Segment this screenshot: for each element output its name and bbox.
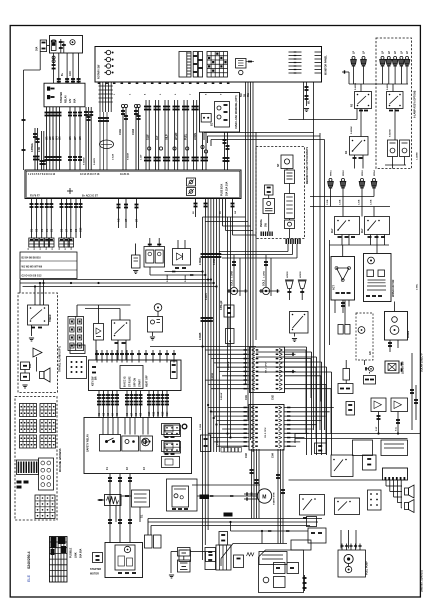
- relay column circle: [183, 425, 187, 429]
- solenoid relay box B2: [365, 217, 390, 235]
- svg-text:HEAT OFF: HEAT OFF: [146, 375, 149, 387]
- svg-text:LP: LP: [406, 51, 409, 54]
- lamp assy lower drops: [354, 155, 356, 169]
- svg-text:60A: 60A: [74, 98, 77, 103]
- svg-text:LP: LP: [394, 51, 397, 54]
- machine harness connector dashed box: [15, 397, 57, 521]
- key switch contact table: [120, 366, 143, 389]
- towing ground: [29, 337, 34, 339]
- comparator relay A: [371, 398, 386, 412]
- wires below gauge cluster: [389, 340, 391, 352]
- dark connector pair A: [200, 495, 210, 500]
- solenoid feed labels: [233, 255, 235, 287]
- connector pair CN12: [134, 104, 137, 107]
- svg-text:0.85GR: 0.85GR: [128, 152, 130, 160]
- ignition switch circle: [70, 40, 75, 45]
- amp unit box: [285, 170, 295, 184]
- svg-text:K13: K13: [162, 411, 165, 416]
- wires into lower block left: [208, 407, 249, 409]
- svg-text:1 2 3 4 5 6 7 8 9 10 11 12: 1 2 3 4 5 6 7 8 9 10 11 12: [28, 173, 56, 176]
- lamp unit box bottom: [337, 547, 339, 549]
- svg-text:2.0LW: 2.0LW: [113, 154, 115, 160]
- right bus verticals from panel: [303, 82, 305, 120]
- wires from upper block right: [285, 349, 307, 351]
- controller connector block lower: [249, 405, 284, 451]
- svg-text:1.25RB: 1.25RB: [232, 270, 234, 278]
- svg-text:K11: K11: [153, 411, 156, 416]
- svg-text:2.0WL: 2.0WL: [417, 283, 419, 290]
- panel hour meter: [236, 59, 247, 69]
- svg-text:B2 B4 B6 B8 B10: B2 B4 B6 B8 B10: [22, 257, 42, 260]
- upper small box: [70, 345, 85, 354]
- svg-text:1.25B: 1.25B: [340, 199, 342, 205]
- alarm op-amp: [33, 348, 42, 357]
- bottom bus lines: [148, 518, 322, 520]
- svg-text:0.85RG: 0.85RG: [355, 82, 357, 90]
- wires battery box down to ECU: [53, 53, 55, 83]
- fusible link F1: [40, 40, 46, 52]
- battery B1 box: [50, 36, 83, 54]
- head lamp relay RL2: [387, 92, 404, 109]
- ground resistor: [133, 270, 138, 272]
- svg-text:WIPER MOTOR: WIPER MOTOR: [392, 279, 395, 297]
- lamp L7: [406, 56, 409, 59]
- svg-text:0.85LW: 0.85LW: [221, 393, 223, 400]
- svg-text:CN1: CN1: [245, 395, 248, 400]
- svg-text:50A 80A: 50A 80A: [80, 548, 83, 558]
- work lamp wire chain: [306, 82, 308, 106]
- svg-text:CN4: CN4: [272, 453, 275, 458]
- battery cell cylinder: [51, 41, 56, 51]
- safety wires into subboxes: [102, 418, 104, 435]
- aircon small parts: [338, 325, 343, 335]
- wide pin connector: [17, 460, 39, 475]
- terminal name table: [20, 252, 77, 279]
- instrument panel assembly box: [95, 47, 322, 83]
- battery main: [178, 548, 191, 557]
- panel bottom pin ticks: [98, 83, 101, 84]
- wire left feed: [23, 70, 25, 170]
- svg-text:K14: K14: [166, 411, 169, 416]
- left horizontal feeders: [20, 279, 211, 281]
- overload sensor sub-box: [215, 102, 230, 128]
- wires below headers down to bottom: [251, 449, 253, 519]
- motor feed ticks: [246, 492, 247, 495]
- svg-text:HORN: HORN: [300, 271, 302, 278]
- svg-text:DRW NO. S240-E01: DRW NO. S240-E01: [421, 569, 424, 592]
- svg-text:0.85GW: 0.85GW: [390, 129, 392, 137]
- pedal chain wires: [268, 195, 270, 199]
- wires above key box: [96, 350, 98, 363]
- memory 2-way option dashed box: [256, 147, 305, 239]
- comparator relay B: [391, 398, 408, 412]
- pedal sensor box A: [265, 185, 274, 195]
- memory relay: [285, 220, 295, 229]
- svg-text:LEVER SW: LEVER SW: [402, 361, 405, 374]
- svg-text:PRS3: PRS3: [362, 170, 364, 176]
- main relay unit U1 box: [44, 83, 85, 107]
- washer ground: [292, 338, 297, 340]
- memory controller tall box: [285, 194, 295, 219]
- right vertical wires: [411, 353, 413, 430]
- relay feed wires: [149, 238, 151, 247]
- key switch left ticks: [92, 366, 96, 368]
- svg-text:FUEL: FUEL: [185, 133, 188, 140]
- pin box bottom: [179, 550, 191, 562]
- svg-text:0.85RW: 0.85RW: [351, 126, 353, 134]
- glow plug resistor box: [132, 490, 150, 507]
- glow coil inductor: [107, 497, 119, 505]
- feeder junction dots: [34, 285, 36, 287]
- overload output rings: [202, 132, 204, 170]
- wire battery to fuse: [47, 45, 50, 47]
- svg-text:B ACC IG: B ACC IG: [124, 376, 127, 387]
- wire drops mid: [118, 199, 120, 229]
- panel connector pin stubs: [289, 51, 302, 53]
- wires from lower block right: [284, 407, 334, 409]
- svg-text:0.85YB: 0.85YB: [94, 158, 96, 165]
- svg-text:ELE: ELE: [27, 574, 31, 582]
- horn H1: [286, 281, 293, 289]
- center long link: [150, 346, 256, 348]
- svg-text:ROTARY SW: ROTARY SW: [98, 64, 101, 79]
- svg-text:0.85B: 0.85B: [213, 258, 216, 265]
- diode unit: [94, 324, 104, 341]
- svg-text:HORN: HORN: [407, 331, 410, 338]
- svg-text:30A: 30A: [36, 46, 39, 51]
- relay box upper right: [385, 361, 399, 373]
- towing feeds: [34, 287, 36, 306]
- coil zigzag: [247, 553, 255, 557]
- svg-text:CN2: CN2: [272, 395, 275, 400]
- lower relay box B: [381, 440, 408, 456]
- svg-text:GLW: GLW: [147, 134, 150, 140]
- dark connector pair B: [224, 513, 233, 517]
- fuel unit box: [148, 317, 163, 333]
- lamp L6: [400, 56, 403, 59]
- svg-text:BZ: BZ: [211, 122, 214, 126]
- horn relay oval: [100, 140, 114, 149]
- svg-text:19 20 21: 19 20 21: [120, 173, 130, 176]
- solenoid SOL2: [262, 287, 269, 294]
- speaker unit box: [281, 155, 293, 169]
- svg-text:0.5L: 0.5L: [396, 426, 398, 431]
- svg-text:6-LAMP ASSY (OPTION): 6-LAMP ASSY (OPTION): [414, 90, 417, 118]
- svg-text:ST: ST: [136, 218, 139, 222]
- key switch right part: [171, 361, 178, 379]
- fuel pump wires up: [340, 530, 342, 549]
- alarm buzzer speaker: [40, 372, 45, 379]
- heater relay cluster box: [167, 479, 198, 511]
- svg-text:OILP: OILP: [166, 134, 169, 140]
- svg-text:K12: K12: [157, 411, 160, 416]
- svg-text:C10: C10: [80, 227, 83, 232]
- svg-text:SAFETY RELAY: SAFETY RELAY: [87, 434, 90, 452]
- svg-text:LP: LP: [363, 51, 366, 54]
- svg-text:PRS4: PRS4: [373, 170, 376, 176]
- flasher wires: [392, 157, 394, 166]
- relay box RB1: [331, 455, 353, 477]
- center relay: [335, 498, 360, 515]
- svg-text:LP: LP: [382, 51, 385, 54]
- svg-text:SOL2: SOL2: [263, 279, 266, 286]
- relay box RB2: [363, 455, 377, 470]
- connector dot box: [67, 357, 87, 379]
- svg-text:STARTER: STARTER: [90, 568, 101, 571]
- svg-text:LP: LP: [388, 51, 391, 54]
- resistor pack: [226, 329, 235, 344]
- wiper relay pair box: [144, 247, 165, 268]
- panel output wire field: [85, 107, 87, 170]
- lamp L3: [381, 56, 384, 59]
- svg-text:HT: HT: [125, 218, 128, 222]
- relay cluster box bottom right: [259, 550, 304, 593]
- svg-text:CN3: CN3: [245, 453, 248, 458]
- feeder staircase to right: [256, 346, 307, 348]
- connector pair CN11: [121, 104, 124, 107]
- pedal connector comb B: [286, 239, 287, 245]
- relay column box 2: [162, 441, 180, 452]
- svg-text:TRAVEL ALARM (OPT): TRAVEL ALARM (OPT): [59, 346, 62, 372]
- indicator lamps in panel: [106, 50, 110, 54]
- floor relay box: [259, 552, 287, 565]
- ring terminal block: [39, 458, 54, 490]
- svg-text:0.85LgR: 0.85LgR: [220, 300, 223, 310]
- relay drop wires: [360, 84, 362, 92]
- svg-text:G2 G4 G6 G8 G12: G2 G4 G6 G8 G12: [22, 275, 43, 278]
- svg-text:PRS2: PRS2: [343, 170, 345, 176]
- svg-text:LP: LP: [400, 51, 403, 54]
- svg-text:1.25B: 1.25B: [359, 199, 361, 205]
- alternator fuse bank hatched: [50, 537, 68, 583]
- junction bus box: [25, 170, 241, 199]
- relay output drops: [341, 235, 343, 246]
- svg-text:0.85RL: 0.85RL: [387, 82, 389, 90]
- speaker wires: [385, 480, 387, 486]
- panel fuse grid block: [207, 52, 228, 78]
- svg-text:PEDAL: PEDAL: [260, 218, 263, 227]
- wiper motor box: [364, 254, 392, 302]
- fuse small: [219, 532, 228, 546]
- cross links to right bus: [204, 132, 314, 134]
- battery plus mark: [69, 188, 71, 194]
- svg-text:FUSE BOX: FUSE BOX: [221, 183, 224, 196]
- svg-text:0.5Y: 0.5Y: [376, 426, 378, 431]
- speaker SP1: [405, 488, 409, 495]
- right spine verticals: [329, 240, 331, 345]
- bundle continues to bus: [99, 112, 101, 170]
- lamp feed wires: [353, 66, 355, 84]
- svg-text:CN-1 CPU: CN-1 CPU: [266, 362, 268, 373]
- controller connector block upper: [250, 347, 285, 393]
- 6-lamp assy option dashed box: [376, 38, 412, 169]
- svg-text:RLY: RLY: [331, 228, 334, 233]
- pressure sensor S3: [361, 178, 364, 181]
- glow plug comb: [216, 545, 231, 570]
- wire pair mid-left: [34, 128, 36, 170]
- spine junction dots: [201, 270, 203, 272]
- buzzer circle: [369, 366, 374, 371]
- svg-text:HORN: HORN: [287, 271, 289, 278]
- safety sub-box 2: [122, 436, 139, 451]
- resistor drop: [135, 244, 137, 256]
- small box below: [307, 517, 317, 527]
- svg-text:ACC: ACC: [69, 71, 72, 76]
- svg-text:1.25Y: 1.25Y: [141, 154, 143, 160]
- svg-text:RLY: RLY: [361, 228, 364, 233]
- svg-text:ALT: ALT: [156, 135, 159, 140]
- drops to key box: [95, 340, 97, 360]
- svg-text:1.25RG: 1.25RG: [264, 270, 266, 278]
- battery inner ticks: [60, 39, 62, 53]
- safety sub-box 1: [100, 435, 121, 452]
- svg-text:B+ ACC IG ST: B+ ACC IG ST: [82, 194, 98, 197]
- motor circle mid-left: [142, 438, 150, 446]
- fuel pump unit: [338, 550, 366, 577]
- svg-text:SOL1: SOL1: [231, 279, 234, 286]
- central harness bus verticals: [245, 82, 247, 385]
- starter motor outer box: [105, 543, 143, 578]
- wire drops right of bus box: [195, 199, 197, 218]
- horizontal links center: [165, 271, 203, 273]
- overload pair to bus box: [224, 132, 226, 170]
- speaker SP2: [405, 503, 409, 510]
- wires into upper block left: [205, 349, 249, 351]
- pressure sensor S4: [373, 178, 376, 181]
- svg-text:TIMER: TIMER: [49, 314, 52, 322]
- small box lower: [201, 435, 211, 452]
- relay column box 3: [162, 457, 180, 468]
- lower cross links: [231, 530, 309, 532]
- svg-text:MOTOR: MOTOR: [90, 573, 99, 576]
- svg-text:0.85YR: 0.85YR: [206, 293, 208, 300]
- svg-text:0.85WG: 0.85WG: [31, 143, 34, 152]
- svg-text:SP: SP: [277, 163, 280, 167]
- sensor bus lines: [310, 196, 374, 198]
- connector blocks column 1: [20, 404, 37, 417]
- fuel sender gauge: [154, 304, 162, 312]
- cab floor harness trapezoid: [221, 544, 287, 559]
- svg-text:0.85WL: 0.85WL: [185, 274, 187, 282]
- timer box: [224, 305, 234, 317]
- svg-text:STARTER: STARTER: [60, 92, 63, 103]
- spine connector ticks: [201, 253, 205, 255]
- connector blocks row: [29, 238, 34, 247]
- svg-text:MONITOR PANEL: MONITOR PANEL: [325, 55, 328, 75]
- svg-text:BZ1: BZ1: [29, 363, 32, 368]
- lamp L1: [352, 56, 355, 59]
- svg-text:R: R: [229, 340, 232, 342]
- svg-text:CN12: CN12: [132, 128, 135, 135]
- svg-text:LP: LP: [353, 51, 356, 54]
- svg-text:12V: 12V: [69, 98, 72, 103]
- towing relay: [28, 305, 49, 325]
- small unit: [338, 384, 353, 394]
- svg-text:1.25WB: 1.25WB: [417, 152, 419, 160]
- overload warning unit box: [200, 93, 240, 133]
- svg-text:START MTR: START MTR: [273, 492, 276, 505]
- wires below safety box: [109, 474, 111, 543]
- diode relay: [173, 249, 191, 266]
- svg-text:2.0R: 2.0R: [38, 147, 41, 152]
- horn H2: [299, 281, 306, 289]
- left stub labels into right block: [231, 404, 301, 406]
- turn flasher unit F1: [388, 140, 398, 157]
- safety sub-box 3: [140, 436, 153, 451]
- svg-text:0.85WR: 0.85WR: [167, 274, 169, 282]
- connector blocks column 2: [40, 404, 56, 417]
- svg-text:1.25B: 1.25B: [371, 199, 373, 205]
- starter aux box: [93, 553, 103, 563]
- svg-text:OFF ON: OFF ON: [134, 378, 137, 387]
- solenoid SOL1: [230, 287, 237, 294]
- svg-text:FUSIBLE: FUSIBLE: [70, 547, 73, 558]
- gauge cluster box: [385, 312, 408, 341]
- heater to motor link: [197, 495, 257, 497]
- svg-text:MACHINE HARNESS: MACHINE HARNESS: [59, 448, 62, 472]
- svg-text:HORN: HORN: [194, 133, 197, 140]
- svg-text:MEMORY/2-WAY OPTION PARTS: MEMORY/2-WAY OPTION PARTS: [306, 147, 309, 184]
- mid wire field with rings: [145, 100, 147, 170]
- svg-text:0.85RY: 0.85RY: [217, 438, 219, 445]
- solenoid relay box A2: [335, 217, 360, 235]
- unit box: [308, 528, 326, 543]
- comparator outputs down: [378, 412, 380, 434]
- svg-text:START: START: [139, 379, 142, 387]
- grid connector block: [35, 495, 55, 519]
- svg-text:A/C: A/C: [369, 351, 372, 355]
- svg-text:CN-2 CPU: CN-2 CPU: [265, 427, 267, 438]
- svg-text:1.25B: 1.25B: [327, 199, 329, 205]
- safety relay: [112, 320, 131, 340]
- lamp L2: [362, 56, 365, 59]
- alarm small parts: [21, 362, 30, 370]
- safety relay unit big box: [84, 418, 192, 474]
- svg-text:ACT: ACT: [333, 285, 336, 290]
- wye motor box: [331, 257, 355, 301]
- key box output field: [98, 391, 100, 418]
- top small box: [291, 540, 311, 550]
- svg-text:20A 15A 10A: 20A 15A 10A: [226, 181, 229, 196]
- svg-text:CN11: CN11: [119, 128, 122, 135]
- overload terminal block: [201, 114, 211, 123]
- spine staircase upper: [203, 216, 246, 218]
- bus box lower wire field: [31, 199, 33, 239]
- pedal sensor box B: [263, 199, 275, 214]
- svg-text:2W: 2W: [235, 211, 237, 214]
- svg-text:F5 F6 F7: F5 F6 F7: [30, 194, 40, 197]
- lower small parts: [315, 443, 327, 454]
- lower relay box A: [353, 440, 373, 456]
- connector pair grids: [164, 425, 181, 437]
- battery side unit: [205, 548, 216, 570]
- junction box mini relays: [187, 178, 196, 186]
- key switch unit box: [89, 360, 182, 391]
- long lower links: [295, 433, 420, 435]
- pressure sensor S1: [329, 178, 332, 181]
- wires below relay unit: [46, 107, 48, 170]
- small part: [234, 555, 244, 568]
- svg-text:SOLAR 250LC-V: SOLAR 250LC-V: [421, 353, 424, 372]
- svg-text:WTMP: WTMP: [175, 132, 178, 140]
- svg-text:2.0WB: 2.0WB: [199, 332, 202, 340]
- svg-text:BR: BR: [95, 376, 98, 380]
- towing alarm dashed box: [18, 293, 58, 393]
- svg-text:0.85BW: 0.85BW: [84, 157, 86, 165]
- harness bundle below panel: [99, 82, 101, 112]
- turn flasher unit F2: [400, 140, 410, 157]
- svg-text:FUEL PUMP: FUEL PUMP: [366, 561, 369, 575]
